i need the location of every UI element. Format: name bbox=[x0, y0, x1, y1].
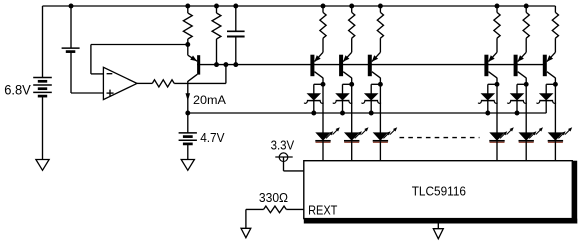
wire Q5 to LED bbox=[496, 84, 498, 133]
wire feedback from - input to emitter node bbox=[90, 45, 92, 74]
node ref branch on rail bbox=[69, 4, 74, 9]
wire ground to R330 bbox=[245, 209, 247, 228]
svg-text:4.7V: 4.7V bbox=[200, 130, 224, 145]
battery BT2 reference cell bbox=[62, 47, 80, 49]
zener D3 column 3 bbox=[365, 94, 378, 100]
node Q5 collector bbox=[495, 82, 500, 87]
resistor R330 330ohm bbox=[264, 206, 287, 213]
wire BT3 to ground bbox=[187, 144, 189, 160]
node Q4 collector bbox=[378, 82, 383, 87]
svg-text:TLC59116: TLC59116 bbox=[412, 183, 466, 198]
resistor R1 op-amp output bbox=[152, 80, 174, 87]
resistor R8 column 5 bbox=[525, 6, 527, 12]
svg-text:REXT: REXT bbox=[308, 203, 337, 218]
wire zener branch column 1 bbox=[314, 83, 323, 85]
resistor R3 base bbox=[216, 6, 218, 13]
node zener D1 at 4.7V rail bbox=[311, 111, 316, 116]
wire left rail drop to battery bbox=[42, 6, 44, 78]
wire zener branch column 4 bbox=[488, 83, 497, 85]
node column 5 on rail bbox=[524, 4, 529, 9]
node zener D4 at 4.7V rail bbox=[485, 111, 490, 116]
wire op-amp - input stub bbox=[91, 73, 104, 75]
node Q1 collector at 4.7V rail bbox=[185, 111, 190, 116]
wire Q1 collector down bbox=[187, 81, 189, 113]
resistor R7 column 4 bbox=[496, 6, 498, 12]
node zener D3 at 4.7V rail bbox=[369, 111, 374, 116]
zener D4 column 4 bbox=[482, 94, 495, 100]
zener D5 column 5 bbox=[511, 94, 524, 100]
capacitor C1 bbox=[235, 6, 237, 31]
svg-text:6.8V: 6.8V bbox=[4, 83, 31, 99]
wire R1 to base jog bbox=[174, 82, 226, 84]
zener D2 column 2 bbox=[336, 94, 349, 100]
wire Q6 collector down bbox=[525, 78, 527, 85]
LED D7 column 1 bbox=[316, 133, 330, 140]
wire Q4 to LED bbox=[379, 84, 381, 133]
op-amp U1 bbox=[103, 67, 137, 99]
wire LED to TLC59116 pin bbox=[554, 142, 556, 161]
wire zener branch column 6 bbox=[546, 83, 555, 85]
resistor R2 emitter bbox=[187, 6, 189, 13]
transistor Q1 bbox=[197, 55, 200, 74]
wire battery BT1 to ground bbox=[42, 96, 44, 160]
wire Q7 collector down bbox=[554, 78, 556, 85]
transistor Q7 column 6 bbox=[543, 55, 547, 76]
node column 3 on rail bbox=[378, 4, 383, 9]
wire 3.3V to TLC59116 bbox=[283, 157, 285, 171]
transistor Q2 column 1 bbox=[310, 55, 314, 76]
ground below U2 bbox=[433, 229, 443, 239]
node zener D2 at 4.7V rail bbox=[340, 111, 345, 116]
node C1 at base rail bbox=[233, 62, 238, 67]
ground below BT3 bbox=[181, 160, 194, 171]
dashed wire continuation bbox=[400, 137, 480, 139]
wire LED to TLC59116 pin bbox=[525, 142, 527, 161]
wire base rail bbox=[197, 64, 546, 66]
ground below BT1 bbox=[36, 160, 49, 171]
wire rail to reference cell bbox=[70, 6, 72, 48]
wire top 6.8V rail bbox=[43, 5, 556, 7]
node R3 top on rail bbox=[214, 4, 219, 9]
wire zener branch column 3 bbox=[371, 83, 380, 85]
wire Q2 collector down bbox=[322, 78, 324, 85]
node zener D5 at 4.7V rail bbox=[515, 111, 520, 116]
node Q7 collector bbox=[553, 82, 558, 87]
wire Q3 collector down bbox=[351, 78, 353, 85]
wire U2 ground stub bbox=[437, 224, 439, 229]
transistor Q5 column 4 bbox=[484, 55, 488, 76]
resistor R6 column 3 bbox=[379, 6, 381, 12]
zener D6 column 6 bbox=[540, 94, 553, 100]
wire R330 to REXT pin bbox=[286, 208, 304, 210]
LED D8 column 2 bbox=[345, 133, 359, 140]
resistor R9 column 6 bbox=[554, 6, 556, 12]
node column 1 on rail bbox=[321, 4, 326, 9]
wire LED to TLC59116 pin bbox=[322, 142, 324, 161]
transistor Q3 column 2 bbox=[339, 55, 343, 76]
node Q3 collector bbox=[349, 82, 354, 87]
wire LED to TLC59116 pin bbox=[496, 142, 498, 161]
zener D1 column 1 bbox=[308, 94, 321, 100]
LED D12 column 6 bbox=[549, 133, 563, 140]
node Q6 collector bbox=[524, 82, 529, 87]
IC U2 TLC59116 body bbox=[304, 161, 573, 219]
wire reference cell to op-amp + input bbox=[70, 52, 72, 93]
LED D10 column 4 bbox=[490, 133, 504, 140]
resistor R4 column 1 bbox=[322, 6, 324, 12]
node base jog bbox=[223, 62, 228, 67]
svg-text:3.3V: 3.3V bbox=[271, 138, 295, 153]
wire Q6 to LED bbox=[525, 84, 527, 133]
supply symbol 3.3V bbox=[279, 153, 288, 162]
wire zener branch column 2 bbox=[343, 83, 352, 85]
node Q2 collector bbox=[321, 82, 326, 87]
arrow 20mA current bbox=[186, 93, 191, 101]
wire op-amp output bbox=[137, 82, 152, 84]
wire Q7 to LED bbox=[554, 84, 556, 133]
wire Q5 collector down bbox=[496, 78, 498, 85]
ground at R330 bbox=[241, 228, 251, 237]
node R2 top on rail bbox=[185, 4, 190, 9]
resistor R5 column 2 bbox=[351, 6, 353, 12]
wire LED to TLC59116 pin bbox=[379, 142, 381, 161]
wire zener branch column 5 bbox=[517, 83, 526, 85]
node R3 at base rail bbox=[214, 62, 219, 67]
battery BT1 6.8V bbox=[33, 77, 52, 79]
wire rail to BT3 bbox=[187, 113, 189, 133]
wire Q3 to LED bbox=[351, 84, 353, 133]
transistor Q4 column 3 bbox=[368, 55, 372, 76]
wire jog up to base rail bbox=[225, 65, 227, 84]
LED D9 column 3 bbox=[374, 133, 388, 140]
battery BT3 4.7V bbox=[179, 132, 197, 134]
wire LED to TLC59116 pin bbox=[351, 142, 353, 161]
transistor Q6 column 5 bbox=[514, 55, 518, 76]
wire Q4 collector down bbox=[379, 78, 381, 85]
svg-text:20mA: 20mA bbox=[193, 93, 227, 107]
LED D11 column 5 bbox=[519, 133, 533, 140]
wire Q2 to LED bbox=[322, 84, 324, 133]
wire 4.7V rail bbox=[188, 112, 547, 114]
svg-text:330Ω: 330Ω bbox=[259, 190, 288, 205]
node column 2 on rail bbox=[349, 4, 354, 9]
node emitter of Q1 bbox=[185, 42, 190, 47]
node column 4 on rail bbox=[495, 4, 500, 9]
node C1 top on rail bbox=[233, 4, 238, 9]
